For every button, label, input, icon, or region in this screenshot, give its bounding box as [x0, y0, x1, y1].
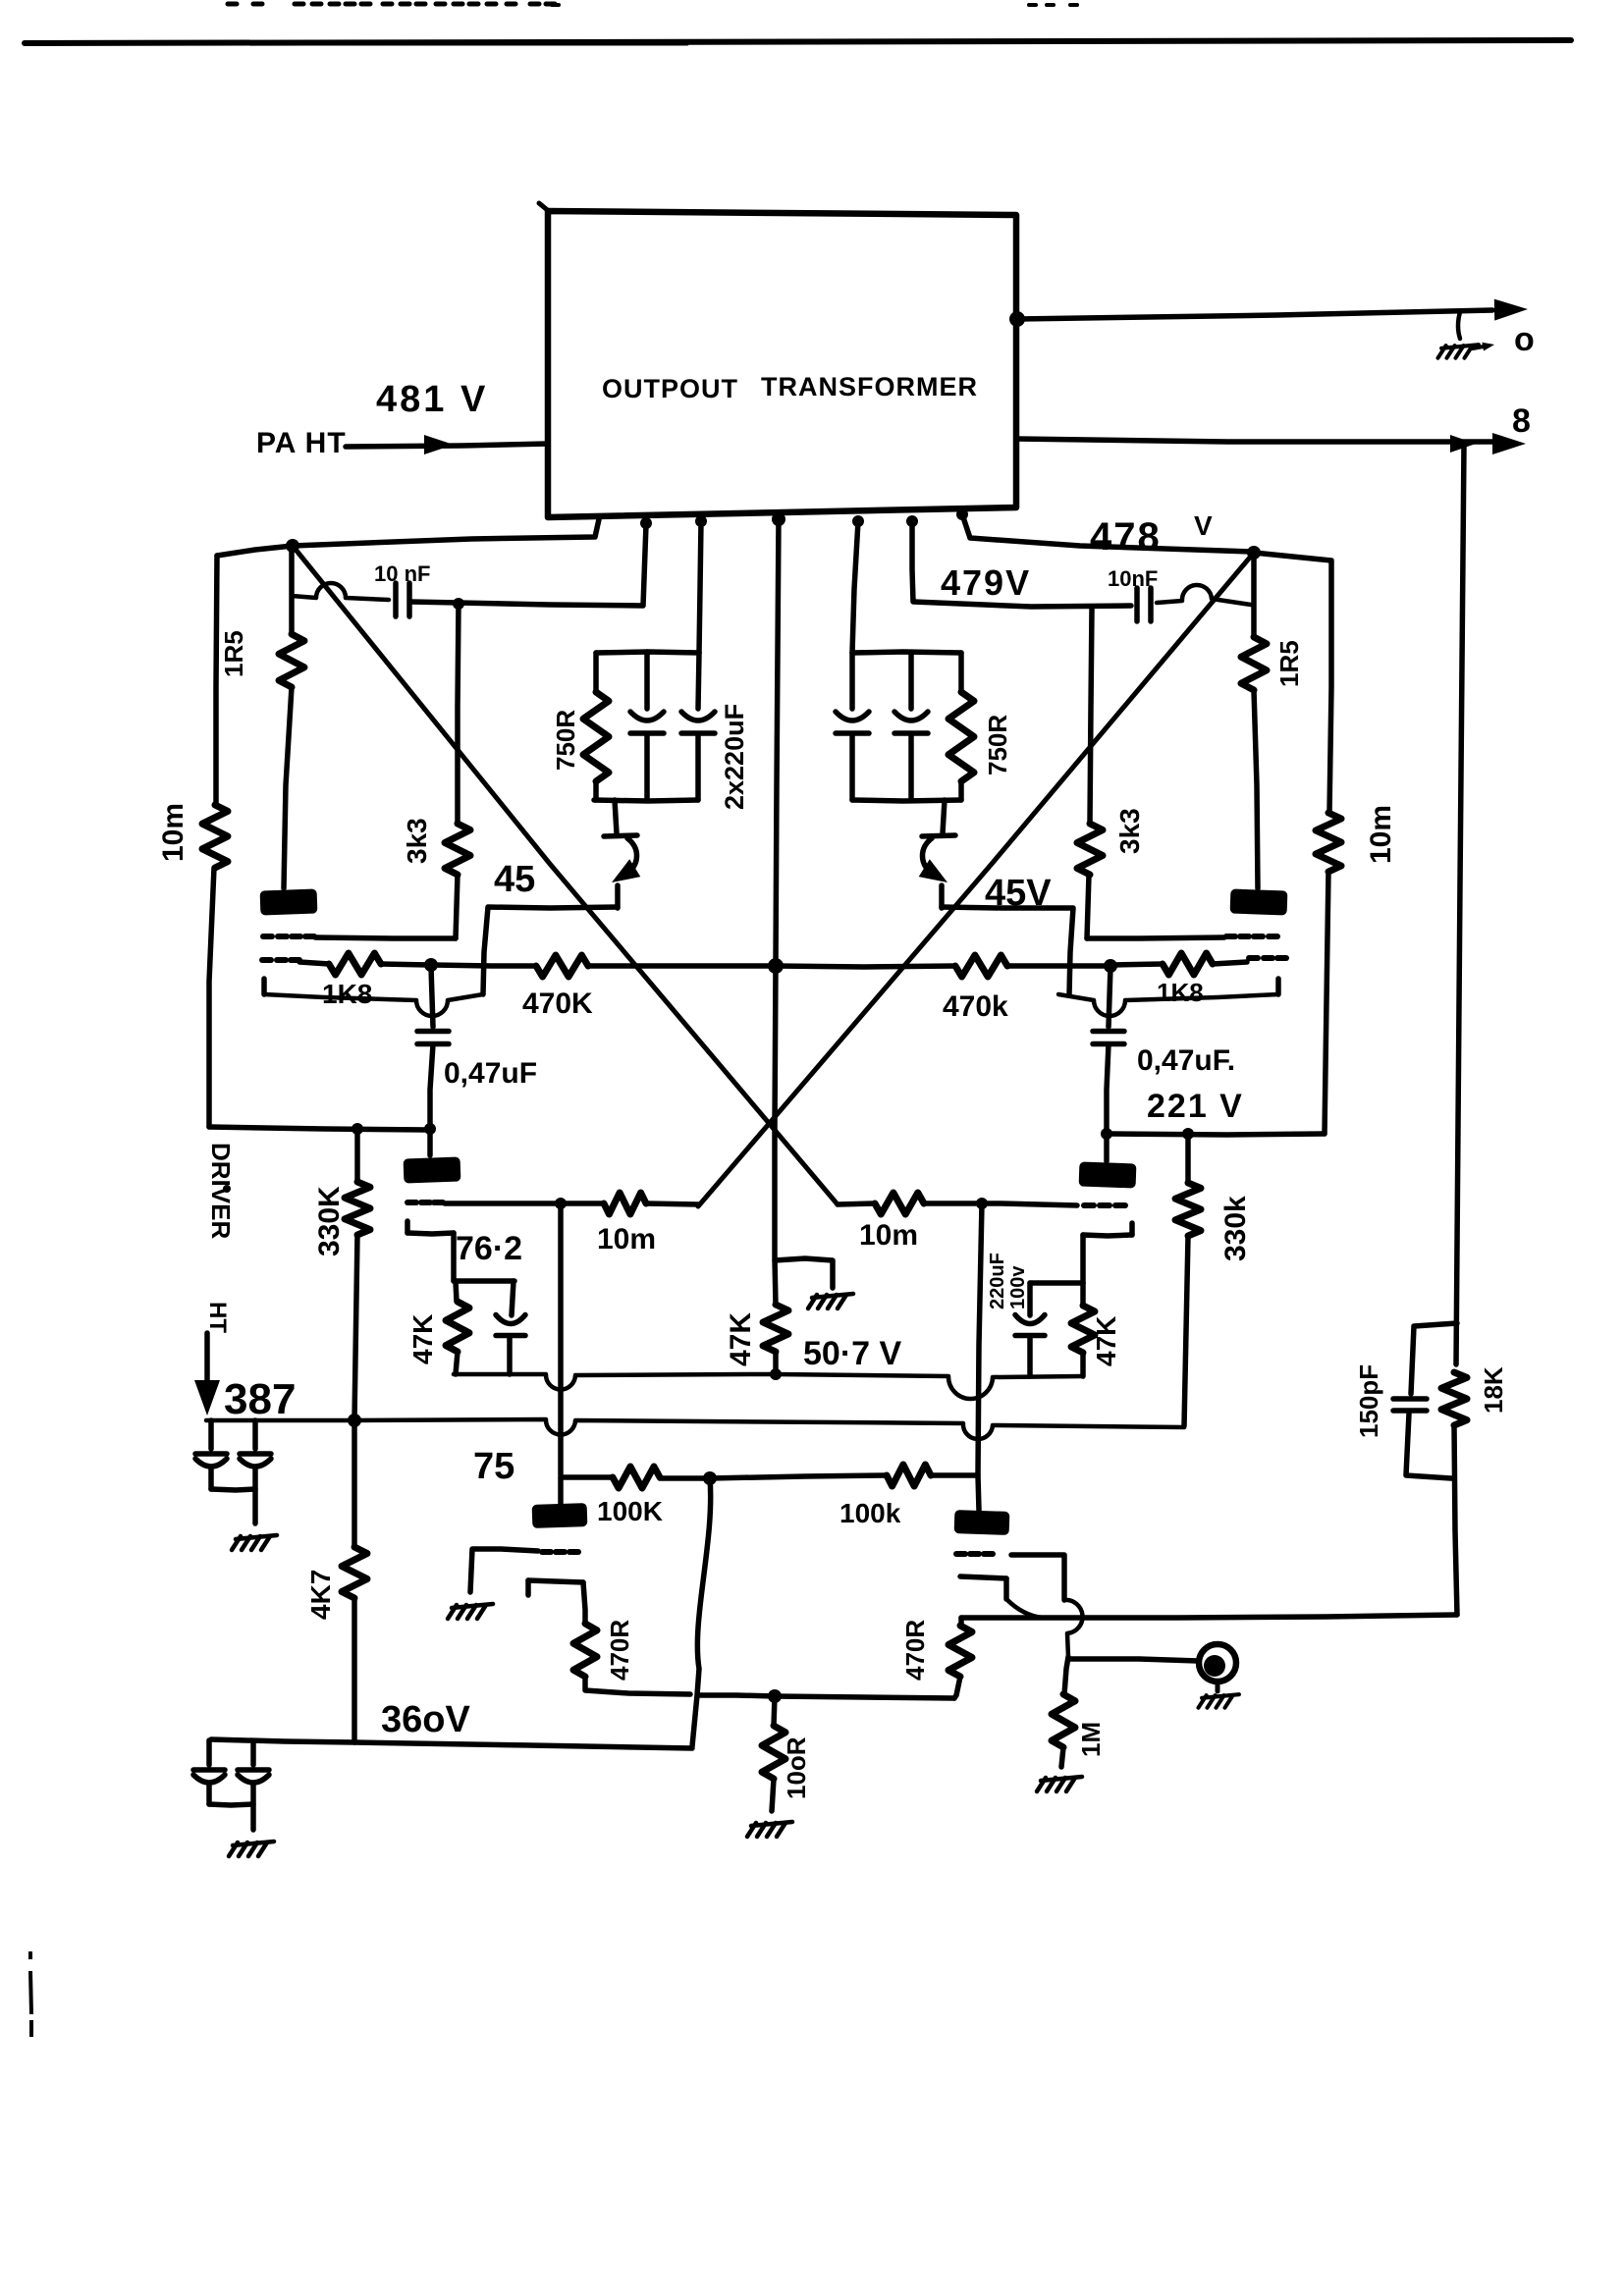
node transformer pin 5 [852, 515, 864, 527]
label 470K left [522, 988, 593, 1020]
resistor 470K left wire [433, 965, 536, 966]
label 470R right [900, 1620, 930, 1681]
wire V5 grid to ground [470, 1549, 538, 1592]
wire V3 grid to 10m [561, 1201, 604, 1206]
wire V4 grid [982, 1203, 1077, 1205]
wire 470R right bottom [954, 1677, 960, 1698]
node right output anode junction [1247, 546, 1261, 560]
tube V1 grid dashes [262, 957, 299, 963]
wire left network tail wavy [604, 800, 637, 908]
capacitor 220uF cathode wire [1027, 1283, 1033, 1315]
node transformer pin 6 [906, 515, 918, 527]
resistor 470K left [536, 955, 588, 977]
capacitor 47K-bypass left wire [512, 1281, 514, 1315]
label 3k3 right [1114, 808, 1145, 854]
svg-text:3k3: 3k3 [402, 818, 432, 864]
wire V3 grid drop [558, 1203, 564, 1475]
wire 47K left bottom [456, 1352, 458, 1374]
node O on transformer right edge [1009, 311, 1025, 327]
label 1R5 left [219, 630, 248, 677]
node V3 grid branch [555, 1198, 567, 1209]
node 100K center [703, 1471, 717, 1485]
label 47K center [725, 1312, 757, 1366]
wire 470K left to center [588, 963, 774, 969]
tube V6 grid dashes [956, 1551, 993, 1557]
label 45 [494, 859, 535, 900]
svg-text:470R: 470R [900, 1620, 930, 1681]
resistor 1K8 right [1163, 953, 1213, 975]
label 1K8 left [322, 979, 372, 1009]
capacitor 0.47uF left [417, 1032, 449, 1044]
wire cap right bottom [1027, 1336, 1033, 1376]
input jack [1199, 1644, 1236, 1682]
resistor 1M [1052, 1694, 1075, 1747]
wire right rail from output 8 down to 18K network [1456, 444, 1464, 1364]
capacitor 150pF [1393, 1399, 1427, 1411]
wire output 0 [1017, 310, 1492, 319]
wire V3 cathode down [451, 1233, 457, 1281]
resistor 10m left driver [604, 1193, 646, 1214]
capacitor twin upper B [240, 1420, 271, 1489]
svg-text:470K: 470K [522, 988, 593, 1020]
wire top-left junction [217, 546, 293, 556]
resistor 750R right [948, 692, 974, 781]
svg-text:10m: 10m [859, 1219, 918, 1252]
label 0 [1514, 321, 1535, 358]
resistor 10m left rail [202, 805, 228, 868]
label 750R right [983, 715, 1012, 775]
capacitor 220uF right A [836, 653, 869, 800]
wire 100K right end [931, 1472, 978, 1478]
svg-text:DRIVER: DRIVER [206, 1143, 236, 1239]
tube V3 grid dashes [407, 1200, 443, 1205]
label 100K right [839, 1498, 901, 1528]
wire 10m right to diagonal [838, 1203, 875, 1204]
node transformer pin 3 [695, 515, 707, 527]
arrowhead output 0 [1494, 299, 1528, 321]
svg-text:10nF: 10nF [1108, 566, 1158, 591]
label 4K7 [305, 1570, 336, 1620]
resistor 4K7 [342, 1547, 367, 1598]
svg-text:481 V: 481 V [376, 379, 488, 420]
svg-text:HT: HT [204, 1302, 231, 1333]
wire 100R stub [774, 1696, 775, 1726]
svg-text:V: V [1194, 510, 1213, 541]
wire junction to transformer pin 1 [293, 519, 599, 546]
wire left rail lower [209, 868, 214, 1127]
node left driver anode junction [424, 1123, 436, 1135]
wire 1R5 stub [289, 546, 295, 634]
ground output 0 [1438, 312, 1495, 358]
resistor 1R5 right [1241, 637, 1267, 690]
capacitor 0.47uF right [1093, 1032, 1124, 1044]
wire cross-coupling diagonal left [293, 546, 838, 1204]
label 45V [985, 873, 1052, 914]
label HT [204, 1302, 231, 1333]
wire 18K bottom to feedback corner [1454, 1425, 1457, 1615]
node center grid junction [768, 958, 784, 974]
ground center bias [808, 1294, 853, 1308]
label 220uF 100V [987, 1253, 1029, 1309]
resistor 1R5 left [279, 634, 304, 687]
label 75 [473, 1446, 514, 1487]
capacitor 220uF left A [630, 652, 664, 800]
capacitor 220uF cathode [1015, 1315, 1045, 1336]
capacitor 10nF right [1137, 588, 1151, 621]
svg-text:150pF: 150pF [1354, 1364, 1383, 1438]
wire V2 grid to 1K8 [1213, 962, 1247, 964]
wire center vertical [776, 519, 779, 965]
wire left rail corner to driver anode node [209, 1127, 428, 1130]
wire pin3 down [699, 521, 701, 653]
wire V4 cathode down [1080, 1235, 1086, 1283]
wire 100K left to center [660, 1475, 710, 1481]
ground 1M [1037, 1777, 1082, 1791]
resistor 470K right [955, 955, 1007, 977]
wire grid bias drop wavy [692, 1478, 711, 1746]
wire 330K right stub [1185, 1134, 1191, 1183]
wire V3 cathode bracket [454, 1278, 514, 1284]
wire center bias to ground [775, 1258, 833, 1288]
resistor 100R [762, 1726, 785, 1779]
label 76.2 [456, 1230, 522, 1267]
wire pin7 to top-right junction [962, 514, 1251, 552]
label 10nF left [374, 561, 430, 586]
tube V2 grid dashes [1249, 955, 1286, 961]
node 330K left top [352, 1123, 363, 1135]
label 330K left [313, 1186, 346, 1256]
wire 750R left bottom [593, 781, 599, 800]
node 100R top [768, 1689, 782, 1703]
tube V4 anode [1079, 1161, 1137, 1188]
wire cross-coupling diagonal right [698, 553, 1254, 1206]
label 47K right [1091, 1316, 1121, 1366]
resistor 47K center [763, 1305, 788, 1352]
node 330K right top [1182, 1128, 1194, 1140]
resistor 750R left [583, 692, 609, 781]
svg-text:10m: 10m [597, 1223, 656, 1255]
resistor 18K [1441, 1372, 1467, 1425]
label 10m right [1365, 805, 1397, 864]
tube V1 anode [260, 888, 318, 915]
label 8 [1512, 402, 1531, 440]
wire 360V bus [211, 1739, 692, 1748]
svg-text:330K: 330K [313, 1186, 346, 1256]
node transformer pin 2 [640, 517, 652, 529]
wire 150pF branch bottom [1406, 1414, 1451, 1478]
svg-text:76·2: 76·2 [456, 1230, 522, 1267]
output transformer label [602, 372, 978, 403]
svg-text:330k: 330k [1219, 1196, 1252, 1261]
wire 330K right lower [1184, 1236, 1188, 1426]
resistor 470K right wire [776, 966, 955, 967]
wire 4K7 stub [352, 1420, 357, 1547]
wire feedback bus [961, 1615, 1457, 1618]
ground jack [1199, 1682, 1239, 1708]
wire bottom bus [699, 1695, 954, 1698]
node transformer pin 4 [772, 512, 785, 526]
label 750R left [551, 710, 580, 771]
wire right rail lower [1325, 872, 1328, 1134]
svg-text:3k3: 3k3 [1114, 808, 1145, 854]
node 387-4K7 [348, 1414, 361, 1427]
wire PA HT input [346, 444, 548, 447]
capacitor 0.47uF right wire [1109, 967, 1110, 1027]
wire V6 grid hop over feedback [1064, 1600, 1083, 1657]
wire 100K center to right [710, 1475, 887, 1478]
wire input to jack [1068, 1659, 1198, 1661]
ground twin upper [232, 1535, 277, 1550]
resistor 470R left [573, 1624, 597, 1677]
svg-text:18K: 18K [1479, 1366, 1508, 1414]
label 150pF [1354, 1364, 1383, 1438]
label 1K8 right [1157, 978, 1204, 1007]
wire 470K right to node [1007, 963, 1109, 969]
tube V5 grid dashes [542, 1549, 578, 1555]
wire V4 grid drop [978, 1203, 982, 1474]
label 10m left [157, 803, 189, 862]
tube V5 cathode [528, 1580, 585, 1624]
wire 387 bus [206, 1419, 1184, 1439]
wire 470R right top [958, 1618, 964, 1626]
label 470K right [943, 990, 1008, 1023]
scan artifact left margin dashes [30, 1951, 31, 2037]
tube V2 cathode [1058, 979, 1278, 1016]
resistor 100K right [887, 1465, 931, 1486]
svg-text:221 V: 221 V [1147, 1088, 1244, 1125]
svg-text:50·7 V: 50·7 V [803, 1335, 901, 1372]
node V2 grid [1104, 959, 1117, 973]
tube V4 grid dashes [1084, 1202, 1125, 1208]
svg-text:o: o [1514, 321, 1535, 358]
wire 10m left to diagonal [646, 1203, 698, 1204]
wire 1R5 to left output anode [284, 687, 292, 888]
wire 10nF left branch [292, 583, 389, 600]
scan artifact heavy horizontal rule [25, 40, 1571, 44]
resistor 470R right [948, 1626, 972, 1677]
wire right network top [852, 652, 961, 653]
wire 0.47uF right lower [1107, 1044, 1109, 1133]
wire driver HT arrow line [204, 1333, 210, 1382]
svg-text:750R: 750R [983, 715, 1012, 775]
svg-text:47K: 47K [725, 1312, 757, 1366]
svg-text:10m: 10m [1365, 805, 1397, 864]
wire 3k3 right stub [1090, 609, 1092, 824]
tube V6 cathode [960, 1576, 1043, 1618]
label DRIVER [206, 1143, 236, 1239]
wire input node drop [1064, 1657, 1068, 1694]
ground 100R [747, 1822, 792, 1837]
wire 750R right stub [958, 653, 964, 692]
arrowhead PA HT [424, 435, 454, 454]
svg-text:8: 8 [1512, 402, 1531, 440]
node transformer pin 7 [956, 508, 968, 520]
svg-text:1M: 1M [1076, 1722, 1106, 1757]
svg-text:45: 45 [494, 859, 535, 900]
svg-text:4K7: 4K7 [305, 1570, 336, 1620]
label 2x220uF [720, 704, 749, 810]
ground twin lower [229, 1842, 274, 1856]
wire 100R bottom [772, 1779, 774, 1811]
label 3k3 left [402, 818, 432, 864]
tube V6 anode [954, 1475, 1010, 1535]
wire 47K right stub [1080, 1283, 1086, 1306]
wire 750R right bottom [958, 781, 964, 800]
svg-text:75: 75 [473, 1446, 514, 1487]
wire to left driver anode [427, 1129, 433, 1155]
wire right network bottom [852, 800, 961, 801]
svg-text:387: 387 [224, 1375, 296, 1423]
capacitor 10nF left [396, 583, 409, 616]
svg-text:TRANSFORMER: TRANSFORMER [761, 372, 978, 401]
wire 3k3 left stub [458, 604, 459, 824]
tube V2 anode [1230, 888, 1288, 915]
wire 47K center bottom [773, 1352, 779, 1375]
node 3k3 left top [453, 598, 464, 610]
svg-text:47K: 47K [1091, 1316, 1121, 1366]
label 478V [1090, 510, 1213, 559]
arrowhead driver HT [194, 1380, 220, 1415]
resistor 10m right driver [875, 1193, 924, 1214]
wire output 8 [1016, 439, 1492, 442]
wire 221V [1107, 1134, 1325, 1135]
label 387 [224, 1375, 296, 1423]
resistor 47K left [446, 1302, 469, 1352]
svg-text:0,47uF.: 0,47uF. [1137, 1044, 1235, 1077]
wire 4K7 lower [352, 1598, 357, 1742]
wire left rail top [216, 556, 217, 805]
wire 45V right jog [942, 907, 1073, 994]
wire twin lower bracket [209, 1804, 253, 1830]
label 47K left [407, 1314, 438, 1364]
label 0.47uF left [444, 1057, 537, 1090]
tube V1 cathode [264, 979, 483, 1016]
svg-text:OUTPOUT: OUTPOUT [602, 374, 738, 403]
svg-text:47K: 47K [407, 1314, 438, 1364]
capacitor 220uF left B [681, 653, 715, 800]
wire junction to right rail corner [1254, 553, 1331, 813]
tube V4 cathode [1083, 1223, 1132, 1236]
svg-text:100k: 100k [839, 1498, 901, 1528]
label 10nF right [1108, 566, 1158, 591]
wire 1K8 to grid node [381, 964, 429, 965]
label 0.47uF right [1137, 1044, 1235, 1077]
wire cathode bus [454, 1374, 1083, 1399]
wire V2 screen [1087, 937, 1224, 938]
wire twin upper bracket [211, 1489, 255, 1523]
wire 750R left stub [593, 653, 599, 692]
svg-text:478: 478 [1090, 515, 1162, 559]
svg-text:10m: 10m [157, 803, 189, 862]
wire center vertical lower [775, 966, 776, 1305]
wire 1R5 right to anode [1254, 690, 1258, 888]
output transformer box [539, 203, 1016, 517]
label 10m right driver [859, 1219, 918, 1252]
svg-text:0,47uF: 0,47uF [444, 1057, 537, 1090]
tube V3 anode [404, 1156, 461, 1183]
svg-text:479V: 479V [941, 562, 1031, 603]
wire 1R5 right stub [1251, 553, 1257, 637]
wire 3k3 left to screen [456, 875, 458, 938]
tube V5 anode [532, 1477, 588, 1528]
label 330K right [1219, 1196, 1252, 1261]
node V4 grid branch [976, 1198, 988, 1209]
wire 100K row [561, 1474, 613, 1480]
resistor 3k3 left [445, 824, 470, 875]
wire 0.47uF left lower [430, 1044, 433, 1129]
wire V4 grid to 10m [924, 1201, 982, 1206]
wire 45 left jog [483, 907, 618, 994]
wire V1 screen [315, 937, 456, 938]
ground V5 grid [448, 1604, 493, 1619]
node V1 grid [424, 958, 438, 972]
svg-text:470k: 470k [943, 990, 1008, 1023]
wire V1 grid to 1K8 [299, 962, 329, 964]
scan artifact top dashed line [228, 4, 1077, 5]
wire 470R left bottom [585, 1677, 690, 1694]
tube V2 screen dashes [1226, 934, 1277, 939]
arrowhead output 8 [1450, 433, 1526, 454]
svg-text:100K: 100K [597, 1496, 663, 1526]
wire V6 grid [1011, 1555, 1064, 1600]
wire 330K left lower [354, 1235, 357, 1419]
capacitor 47K-bypass left [496, 1315, 525, 1336]
wire right network tail wavy [922, 800, 955, 908]
wire 10nF right branch [912, 521, 1131, 607]
capacitor twin lower A [193, 1740, 225, 1804]
svg-text:10 nF: 10 nF [374, 561, 430, 586]
wire V3 grid [445, 1201, 561, 1206]
svg-text:1K8: 1K8 [1157, 978, 1204, 1007]
wire 330K left stub [354, 1130, 360, 1182]
wire 1M bottom [1061, 1747, 1063, 1767]
capacitor twin upper A [195, 1420, 227, 1489]
wire 3k3 right to screen [1087, 875, 1089, 938]
wire cap left bottom [507, 1336, 513, 1374]
tube V3 cathode [407, 1221, 454, 1234]
label 1R5 right [1274, 640, 1304, 687]
svg-text:1R5: 1R5 [219, 630, 248, 677]
capacitor twin lower B [238, 1741, 269, 1804]
svg-text:220uF: 220uF [987, 1253, 1008, 1309]
svg-text:470R: 470R [605, 1620, 634, 1681]
wire 1K8 right to grid node [1112, 964, 1163, 965]
label 221V [1147, 1088, 1244, 1125]
wire 10nF left to transformer pin 2 [410, 524, 646, 606]
resistor 47K right [1071, 1306, 1095, 1353]
svg-text:PA HT: PA HT [256, 427, 347, 459]
label 479V [941, 562, 1031, 603]
capacitor 0.47uF left wire [431, 967, 433, 1027]
resistor 330K left [345, 1182, 370, 1235]
wire 10nF right to 1R5 [1157, 585, 1251, 605]
svg-text:1R5: 1R5 [1274, 640, 1304, 687]
label 100K left [597, 1496, 663, 1526]
svg-text:2x220uF: 2x220uF [720, 704, 749, 810]
resistor 330K right [1175, 1183, 1201, 1236]
svg-text:36oV: 36oV [381, 1699, 470, 1740]
tube V1 screen dashes [263, 934, 314, 939]
arrowhead right tail [919, 859, 947, 882]
label 10m left driver [597, 1223, 656, 1255]
node cathode bus center [770, 1368, 782, 1380]
wire pin5 down [852, 521, 858, 653]
wire left network top [596, 652, 699, 653]
capacitor 220uF right B [894, 653, 928, 800]
wire 47K right bottom [1080, 1353, 1086, 1376]
svg-text:100v: 100v [1007, 1265, 1029, 1309]
label DRIVER period [223, 1185, 231, 1193]
